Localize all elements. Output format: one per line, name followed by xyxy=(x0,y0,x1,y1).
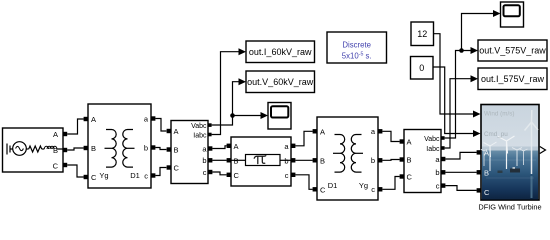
arrowhead into Scope2 xyxy=(493,10,501,17)
PI input pad B xyxy=(227,158,231,162)
svg-text:A: A xyxy=(53,130,58,139)
arrowhead into DFIG Trip input xyxy=(473,130,481,137)
T1 secondary winding coil xyxy=(123,130,135,168)
DFIG terminal pad C xyxy=(477,188,481,192)
block out.I_60kV_raw (To Workspace) xyxy=(246,41,315,63)
wire T2 a to M2 A xyxy=(382,131,399,141)
PI output pad a xyxy=(291,144,295,148)
arrowhead into DFIG Wind input xyxy=(473,111,481,118)
T2 output pad b xyxy=(378,158,382,162)
DFIG photo turbines xyxy=(481,110,538,198)
PI input pad C xyxy=(227,173,231,177)
wire PI b to T2 B xyxy=(295,159,312,161)
arrowhead into out.V_575V xyxy=(471,47,479,54)
T2 primary winding coil xyxy=(333,135,345,173)
resistor R (zigzag) xyxy=(29,146,42,152)
block M1: Three-Phase V-I Measurement box xyxy=(171,121,208,184)
T2 output pad a xyxy=(378,129,382,133)
svg-text:0: 0 xyxy=(419,63,424,73)
svg-text:C: C xyxy=(234,171,240,180)
wire source C to T1 C xyxy=(67,165,84,177)
T2 input pad B xyxy=(313,158,317,162)
svg-text:12: 12 xyxy=(417,29,427,39)
svg-text:A: A xyxy=(174,127,179,136)
wire M1 a to PI A xyxy=(212,146,226,149)
M2 output pad b xyxy=(441,170,445,174)
svg-text:C: C xyxy=(484,188,490,197)
svg-text:D1: D1 xyxy=(130,171,140,180)
wire R to L xyxy=(42,148,45,150)
inductor L (coil) xyxy=(44,146,57,149)
svg-text:DFIG Wind Turbine: DFIG Wind Turbine xyxy=(478,203,541,212)
svg-text:b: b xyxy=(144,144,148,153)
svg-text:Vabc: Vabc xyxy=(191,123,207,130)
M2 input pad A xyxy=(400,139,404,143)
M2 input pad B xyxy=(400,157,404,161)
T2 output pad c xyxy=(378,187,382,191)
wire L to port B xyxy=(57,149,63,150)
T2 input pad C xyxy=(313,187,317,191)
block Constant 0 xyxy=(411,57,434,80)
M1 output pad c xyxy=(208,170,212,174)
svg-text:A: A xyxy=(91,115,96,124)
svg-text:Iabc: Iabc xyxy=(193,132,207,139)
svg-text:b: b xyxy=(371,156,375,165)
block T2: Three-Phase Transformer box (D1 Yg) xyxy=(317,117,378,200)
source port pad A xyxy=(63,132,67,136)
wire M1 Iabc to out.I_60kV (up at x=220.5) xyxy=(212,52,239,135)
block powergui Discrete xyxy=(327,32,387,63)
wire T2 c to M2 C xyxy=(382,177,399,190)
PI output pad b xyxy=(291,158,295,162)
svg-text:C: C xyxy=(53,162,59,171)
svg-text:Vabc: Vabc xyxy=(424,136,440,143)
block U1: Three-Phase Source box xyxy=(3,128,64,172)
ground symbol inside source xyxy=(7,144,13,155)
M1 input pad A xyxy=(167,129,171,133)
svg-text:Discrete: Discrete xyxy=(342,41,371,50)
wire M2 b to DFIG B xyxy=(445,171,476,173)
arrowhead into out.V_60kV xyxy=(239,78,247,85)
svg-text:c: c xyxy=(285,171,289,180)
wire source A to T1 A xyxy=(67,119,84,134)
svg-text:A: A xyxy=(320,127,325,136)
wire T1 c to M1 C xyxy=(155,168,166,176)
svg-text:C: C xyxy=(320,185,326,194)
svg-text:c: c xyxy=(436,181,440,190)
M1 input pad B xyxy=(167,147,171,151)
DFIG terminal pad A xyxy=(477,150,481,154)
svg-text:B: B xyxy=(407,155,412,164)
svg-text:B: B xyxy=(174,145,179,154)
svg-text:out.V_60kV_raw: out.V_60kV_raw xyxy=(247,77,314,87)
junction dot on Vabc wire xyxy=(230,113,235,118)
svg-text:C: C xyxy=(174,163,180,172)
source port pad C xyxy=(63,163,67,167)
wire Constant 12 to DFIG Wind input xyxy=(434,34,474,114)
T1 input pad B xyxy=(84,146,88,150)
svg-text:B: B xyxy=(320,156,325,165)
wire PI c to T2 C xyxy=(295,175,312,190)
block DFIG Wind Turbine (photo icon) xyxy=(481,105,539,201)
svg-text:D1: D1 xyxy=(328,181,338,190)
svg-text:5x10-5 s.: 5x10-5 s. xyxy=(342,51,372,60)
svg-text:A: A xyxy=(484,148,489,157)
arrowhead into Scope1 xyxy=(261,112,269,119)
block Scope1 xyxy=(268,103,291,130)
svg-text:c: c xyxy=(371,185,375,194)
arrowhead into out.I_575V xyxy=(471,75,479,82)
wire source internal xyxy=(26,148,28,150)
T2 input pad A xyxy=(313,129,317,133)
wire junction to Scope2 xyxy=(462,14,494,51)
M2 output pad c xyxy=(441,183,445,187)
svg-text:c: c xyxy=(144,172,148,181)
wire PI B to inner rect left xyxy=(231,159,246,161)
wire M2 a to DFIG A xyxy=(445,152,476,159)
block T1: Three-Phase Transformer box (Yg D1) xyxy=(88,104,151,188)
T1 output pad c xyxy=(151,173,155,177)
svg-text:B: B xyxy=(91,144,96,153)
block Constant 12 xyxy=(411,22,434,46)
junction dot on Vabc2 wire xyxy=(459,48,464,53)
PI input pad A xyxy=(227,144,231,148)
M1 output pad Iabc xyxy=(208,133,212,137)
svg-text:A: A xyxy=(407,137,412,146)
wire M2 c to DFIG C xyxy=(445,186,476,191)
wire inner rect right to PI b xyxy=(280,159,291,161)
block out.V_575V_raw (To Workspace) xyxy=(478,40,547,61)
svg-text:Iabc: Iabc xyxy=(426,146,440,153)
svg-text:Yg: Yg xyxy=(359,181,368,190)
M1 output pad b xyxy=(208,158,212,162)
svg-text:Cmd_pu: Cmd_pu xyxy=(484,131,508,138)
M1 output pad Vabc xyxy=(208,123,212,127)
T2 secondary winding coil xyxy=(351,135,363,173)
wire M1 b to PI B xyxy=(212,159,226,161)
block M2: Three-Phase V-I Measurement box xyxy=(404,130,441,193)
block PI: Three-Phase PI Section Line box xyxy=(231,137,291,186)
svg-text:out.V_575V_raw: out.V_575V_raw xyxy=(479,46,546,56)
T1 input pad C xyxy=(84,175,88,179)
T1 primary winding coil xyxy=(105,130,117,168)
source port pad B xyxy=(63,148,67,152)
svg-text:A: A xyxy=(234,142,239,151)
T1 output pad a xyxy=(151,116,155,120)
wire T1 a to M1 A xyxy=(155,119,166,132)
svg-text:out.I_60kV_raw: out.I_60kV_raw xyxy=(249,47,312,57)
AC source V1 (sine circle) xyxy=(13,142,27,156)
M2 output pad Vabc xyxy=(441,136,445,140)
wire PI a to T2 A xyxy=(295,131,312,146)
block out.I_575V_raw (To Workspace) xyxy=(478,68,547,90)
wire T2 b to M2 B xyxy=(382,159,399,162)
M1 output pad a xyxy=(208,146,212,150)
PI output pad c xyxy=(291,173,295,177)
wire junction to Scope1 xyxy=(233,115,262,117)
block out.V_60kV_raw (To Workspace) xyxy=(246,71,315,93)
wire M1 Vabc to out.V_60kV (up at x=232.5) xyxy=(212,82,239,125)
svg-text:C: C xyxy=(91,173,97,182)
DFIG output port m (chevron) xyxy=(540,147,546,154)
arrowhead into out.I_60kV xyxy=(239,48,247,55)
wire Constant 0 to DFIG Trip input xyxy=(433,67,473,134)
M1 input pad C xyxy=(167,165,171,169)
M2 output pad a xyxy=(441,157,445,161)
svg-text:b: b xyxy=(202,156,206,165)
T1 output pad b xyxy=(151,145,155,149)
svg-text:b: b xyxy=(435,168,439,177)
wire source B to T1 B xyxy=(67,148,84,150)
svg-text:C: C xyxy=(407,172,413,181)
wire M2 Vabc to out.V_575V (up at x=462) xyxy=(445,51,471,139)
svg-text:B: B xyxy=(53,146,58,155)
svg-text:c: c xyxy=(203,168,207,177)
svg-text:out.I_575V_raw: out.I_575V_raw xyxy=(481,74,545,84)
svg-text:Wind (m/s): Wind (m/s) xyxy=(484,111,514,118)
svg-text:Yg: Yg xyxy=(99,171,108,180)
wire T1 b to M1 B xyxy=(155,148,166,150)
DFIG terminal pad B xyxy=(477,170,481,174)
M2 input pad C xyxy=(400,174,404,178)
block Scope2 xyxy=(501,2,524,27)
M2 output pad Iabc xyxy=(441,146,445,150)
wire M2 Iabc to out.I_575V (up at x=455.5) xyxy=(445,79,471,148)
wire M1 c to PI C xyxy=(212,172,226,175)
PI inner rect with pi symbol xyxy=(246,155,281,166)
svg-text:B: B xyxy=(484,168,489,177)
T1 input pad A xyxy=(84,117,88,121)
